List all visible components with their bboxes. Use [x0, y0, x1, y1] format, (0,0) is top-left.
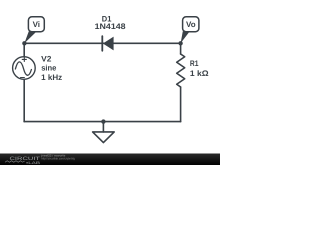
- svg-text:http://circuitlab.com/c/qbrrbf: http://circuitlab.com/c/qbrrbfg: [41, 157, 75, 161]
- svg-text:1 kΩ: 1 kΩ: [190, 69, 209, 78]
- svg-text:1N4148: 1N4148: [95, 22, 127, 31]
- svg-text:sine: sine: [41, 64, 57, 73]
- svg-text:R1: R1: [190, 59, 199, 68]
- svg-text:▪LAB: ▪LAB: [26, 161, 41, 165]
- svg-text:Vo: Vo: [186, 20, 196, 29]
- svg-text:V2: V2: [41, 54, 52, 63]
- svg-text:Vi: Vi: [33, 20, 40, 29]
- svg-text:1 kHz: 1 kHz: [41, 73, 62, 82]
